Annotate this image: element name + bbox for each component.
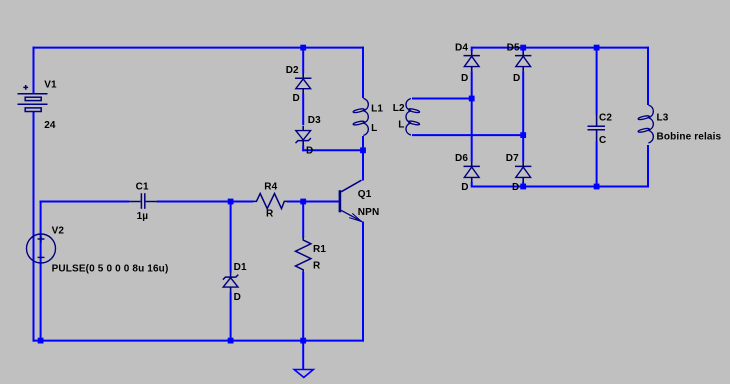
wire D7 to bottom rail: [522, 182, 524, 188]
svg-text:L1: L1: [371, 103, 383, 114]
svg-text:D4: D4: [455, 43, 468, 54]
wire D6 to bottom rail: [471, 182, 473, 188]
svg-text:D2: D2: [286, 65, 299, 76]
svg-text:1µ: 1µ: [137, 211, 149, 222]
wire R1 column top: [302, 201, 304, 239]
zener diode D3: [302, 126, 304, 146]
wire emitter column (Q1 emitter to bottom rail): [362, 222, 364, 342]
svg-text:NPN: NPN: [358, 207, 380, 218]
node D7 bottom: [520, 184, 526, 190]
node C1-D1: [228, 199, 234, 205]
wire R1 column bottom: [302, 272, 304, 342]
node D1 bottom: [228, 338, 234, 344]
wire D2 to D3: [302, 93, 304, 125]
resistor R1: [296, 238, 311, 273]
node L2-D4: [469, 96, 475, 102]
svg-text:R1: R1: [313, 244, 326, 255]
svg-text:D5: D5: [507, 43, 520, 54]
svg-text:C1: C1: [136, 182, 149, 193]
battery V1: [18, 85, 48, 112]
node R4-R1-base: [300, 199, 306, 205]
wire bottom rail right: [472, 186, 649, 188]
transistor Q1: [340, 180, 362, 222]
svg-text:R: R: [313, 261, 321, 272]
wire left column bottom (V1 to bottom rail): [33, 112, 35, 342]
wire C2 column bottom: [596, 142, 598, 188]
svg-text:L3: L3: [657, 113, 669, 124]
capacitor C1: [129, 193, 157, 209]
node D2 top rail: [300, 45, 306, 51]
svg-text:D: D: [234, 292, 241, 303]
node collector: [360, 147, 366, 153]
wire L2 top: [412, 98, 473, 100]
capacitor C2: [588, 114, 606, 142]
zener diode D1: [230, 272, 232, 292]
svg-text:D6: D6: [455, 153, 468, 164]
svg-text:D: D: [293, 93, 300, 104]
node C2 bottom: [594, 184, 600, 190]
wire L1 bottom to Q1 collector: [362, 136, 364, 181]
svg-text:D: D: [461, 182, 468, 193]
node ground junction: [300, 338, 306, 344]
svg-text:24: 24: [44, 120, 56, 131]
wire C1 row left: [40, 201, 129, 203]
resistor R4: [253, 194, 287, 209]
svg-text:R4: R4: [264, 182, 277, 193]
wire top rail left: [33, 47, 365, 49]
wire bottom rail: [33, 340, 365, 342]
svg-text:D7: D7: [506, 153, 519, 164]
wire V2 column: [40, 201, 42, 342]
voltage source V2: [27, 234, 56, 263]
wire D4 column top: [471, 47, 473, 51]
diode D5: [522, 51, 524, 72]
node D5 top: [520, 45, 526, 51]
diode D4: [471, 51, 473, 72]
svg-text:D: D: [512, 182, 519, 193]
svg-text:L2: L2: [393, 103, 405, 114]
wire D1 column bottom: [230, 292, 232, 342]
wire left column top (V1 to top rail): [33, 47, 35, 94]
svg-text:D: D: [513, 73, 520, 84]
svg-text:L: L: [398, 120, 404, 131]
wire D4-D6 column: [471, 71, 473, 162]
wire D2 column (top rail to D2): [302, 47, 304, 74]
diode D2: [302, 73, 304, 93]
wire C1 row right to R4: [157, 201, 253, 203]
wire L2 bottom: [412, 134, 524, 136]
node C2 top: [594, 45, 600, 51]
wire D5-D7 column: [522, 71, 524, 162]
svg-text:V1: V1: [44, 80, 57, 91]
svg-text:C2: C2: [599, 113, 612, 124]
svg-text:D1: D1: [234, 262, 247, 273]
wire D3 to corner: [302, 145, 304, 151]
wire L3 column top: [647, 47, 649, 105]
svg-text:C: C: [599, 135, 606, 146]
inductor L3: [648, 105, 653, 143]
wire D5 column top: [522, 47, 524, 51]
wire R4 to Q1 base: [287, 201, 339, 203]
inductor L2: [406, 99, 411, 136]
wire top rail right: [472, 47, 649, 49]
diode D6: [471, 162, 473, 183]
wire D3 to collector node: [302, 149, 364, 151]
inductor L1: [363, 98, 368, 135]
wire D1 column top: [230, 201, 232, 273]
wire L1 column top (top rail to L1): [362, 47, 364, 98]
wire L3 column bottom: [647, 145, 649, 188]
node V2 bottom: [38, 338, 44, 344]
ground: [302, 341, 304, 370]
svg-text:R: R: [266, 208, 274, 219]
svg-text:V2: V2: [52, 226, 65, 237]
svg-text:D: D: [461, 73, 468, 84]
svg-text:L: L: [371, 123, 377, 134]
svg-text:Bobine relais: Bobine relais: [657, 132, 722, 143]
node L2-D7: [520, 132, 526, 138]
diode D7: [522, 162, 524, 183]
wire C2 column top: [596, 47, 598, 115]
svg-text:D3: D3: [308, 115, 321, 126]
svg-text:Q1: Q1: [358, 189, 372, 200]
svg-text:PULSE(0 5 0 0 0 8u 16u): PULSE(0 5 0 0 0 8u 16u): [52, 264, 169, 275]
svg-text:D: D: [306, 146, 313, 157]
